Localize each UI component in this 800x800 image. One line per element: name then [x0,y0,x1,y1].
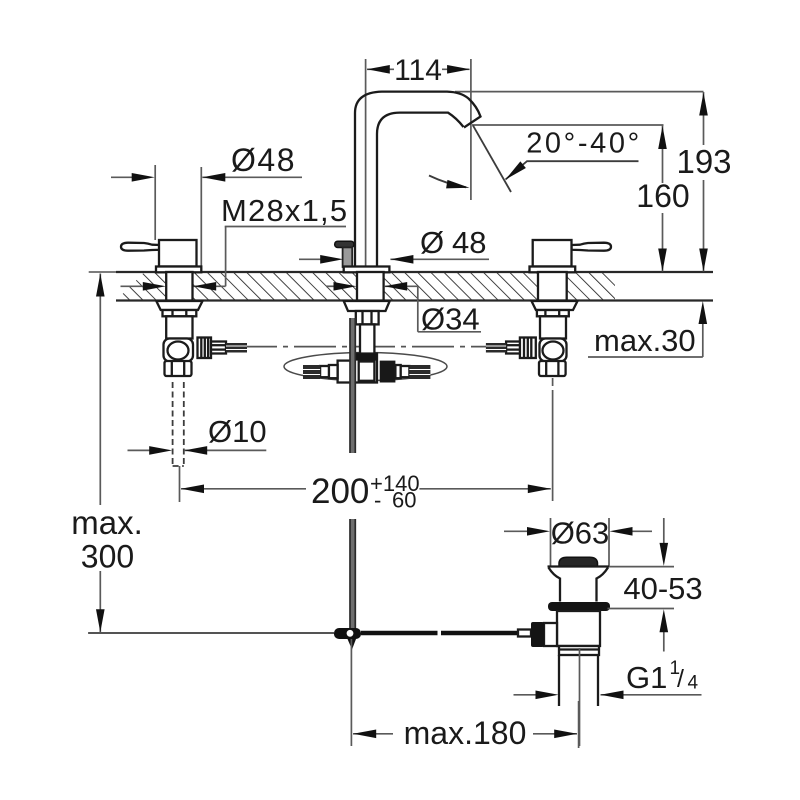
spout inner profile [377,113,464,267]
200 left arrowhead [181,485,204,494]
center Ø48 left arrowhead [320,255,343,264]
right valve hex nut [537,310,569,316]
max.180 dimension line left [353,733,393,735]
Ø63 left arrow body [504,530,528,532]
countertop hatched section between left valve and spout [193,272,357,301]
svg-text:20°-40°: 20°-40° [526,128,642,160]
svg-text:160: 160 [636,178,689,214]
right valve shank through deck [538,272,567,301]
svg-text:200: 200 [311,472,369,511]
left valve elbow body [164,339,194,362]
drain flange top line [548,565,610,567]
pull rod stem [343,247,353,267]
left valve hose knurled end [226,343,247,353]
max.180 left arrowhead [353,730,376,739]
dimension 114 right extension line [470,59,472,200]
Ø10 left arrowhead [149,446,172,455]
svg-text:193: 193 [676,143,731,180]
tee right hose knurled end [409,365,430,379]
40-53 lower vertical line [663,631,665,652]
svg-text:M28x1,5: M28x1,5 [221,193,348,228]
dimension 193 top arrowhead [699,93,708,116]
left valve elbow inner circle [168,342,189,360]
dimension 114 line left part [367,68,394,70]
max.300 dimension vertical line upper part [99,274,101,506]
left valve Ø48 extension line left [154,165,156,240]
angle leader arrowhead [503,161,526,182]
drain body [557,611,600,646]
max.30 up arrowhead [699,301,708,324]
center tee top dark band [354,354,377,361]
drain collar [559,646,599,655]
svg-text:max.: max. [71,504,143,541]
40-53 down arrowhead [660,543,669,566]
200 dimension left extension line [179,466,181,502]
pop-up rod clamp joint [334,628,361,639]
dimension 114 left extension line (passes down through spout column) [365,59,367,267]
svg-text:max.30: max.30 [594,323,696,358]
countertop bottom surface line [116,299,713,301]
max.180 right arrowhead [554,730,577,739]
right valve elbow inner circle [543,342,564,360]
M28 dimension body line left [121,285,144,287]
dimension 193 bottom arrowhead [699,249,708,272]
Ø10 dimension left arrow body [128,449,151,451]
reference line from spout top to 193 dimension [455,91,704,93]
Ø34 right arrowhead [384,282,407,291]
Ø10 right arrowhead [184,446,207,455]
center hex nut [356,311,379,324]
center shank mounting flange nut [344,301,390,311]
right valve escutcheon [530,267,576,273]
svg-text:Ø: Ø [420,225,444,260]
right valve elbow body [540,339,567,362]
G1 1/4 dimension left arrow body [514,694,537,696]
reference line from spout outlet to 160 dimension [472,124,664,126]
dimension 114 left arrowhead [367,65,390,74]
left Ø48 left arrowhead [132,173,155,182]
center shank tube below deck [360,324,374,353]
svg-text:-: - [374,488,381,513]
bottom reference line [88,632,334,634]
dimension 114 right arrowhead [447,65,470,74]
svg-text:/: / [677,665,684,693]
G1 1/4 left arrowhead [536,691,559,700]
left valve escutcheon [156,267,201,273]
G1 1/4 right arrowhead [601,691,624,700]
dimension 160 vertical line lower part [662,213,664,272]
drain rubber seal [548,602,610,611]
Ø63 right arrowhead [610,527,633,536]
countertop hatched section left of left valve [116,272,166,301]
left valve lower nut [165,361,192,376]
left valve mounting flange nut [156,301,202,310]
drain flange right side [597,568,609,602]
tee right compression nut [380,361,396,383]
svg-text:114: 114 [394,54,442,87]
center shank through deck [357,272,384,301]
svg-text:Ø48: Ø48 [231,142,296,178]
svg-text:60: 60 [392,488,416,513]
max.30 underline [588,356,703,358]
40-53 bottom reference line [608,608,675,610]
tee left ring [329,365,338,378]
left Ø48 dimension arrow line left [111,176,132,178]
Ø63 left extension line [550,518,552,566]
countertop hatched section between spout and right valve [384,272,538,301]
M28x1,5 leader vertical line [225,227,227,287]
swivel arc arrow under spout [429,176,466,188]
svg-text:max.180: max.180 [404,715,527,751]
left handle lever [121,243,161,251]
center tee fitting block [354,354,377,383]
200 dimension line right segment [419,488,550,490]
right valve outlet adapter [506,342,520,354]
swivel arc arrowhead [446,180,470,192]
drain side port [544,623,557,646]
right valve body tube [540,316,566,338]
svg-text:300: 300 [81,539,134,575]
M28 left arrowhead [143,282,166,291]
right valve hose knurled end [486,343,506,353]
max.300 up arrowhead [96,274,105,297]
Ø34 dimension left arrow body [326,285,335,287]
clamp lower tail [348,639,357,650]
M28x1,5 underline [225,226,346,228]
drain tailpipe left wall [558,655,560,706]
max.300 down arrowhead [96,609,105,632]
Ø34 leader vertical line [417,286,419,332]
40-53 up arrowhead [660,609,669,632]
max.180 dimension line right [533,733,577,735]
svg-text:G1: G1 [626,660,667,695]
thin extension below clamp (max.180 left extension) [350,639,352,746]
Ø63 right extension line [608,518,610,566]
left valve outlet compression nut [198,338,212,359]
max.30 vertical line [702,322,704,357]
angle label leader line [506,161,639,179]
left valve body tube [166,316,192,338]
Ø63 left arrowhead [527,527,550,536]
tee left compression nut [338,361,353,383]
linkage to drain lever rod outline [518,630,531,637]
pop-up rod (thick, down the middle) [350,318,356,453]
40-53 top reference line [609,566,674,568]
40-53 upper vertical line [663,518,665,544]
tee left hose knurled end [303,365,320,379]
Ø10 right arrow body (underline) [184,449,266,451]
center Ø48 dimension right arrow body (leader under text) [390,258,489,260]
right valve mounting flange nut [532,301,578,310]
M28 dimension body line right [194,285,226,287]
tee right ring [395,365,400,378]
left valve Ø48 extension line right [200,167,202,266]
right valve lower nut [539,361,566,376]
svg-text:Ø34: Ø34 [421,302,480,337]
countertop top surface line [89,271,116,273]
center Ø48 dimension left arrow body [299,258,321,260]
svg-text:Ø10: Ø10 [208,414,267,449]
left valve shank through deck [166,272,192,301]
M28 right arrowhead [193,282,216,291]
center escutcheon [344,267,390,273]
drain centerline [579,648,581,746]
svg-text:40-53: 40-53 [623,571,702,606]
left Ø48 right arrowhead [202,173,225,182]
right valve centerline extension (200 dim right extension) [552,378,554,386]
linkage rod segment 2 [441,631,520,636]
max.180 right extension line [578,701,580,748]
dimension 160 bottom arrowhead [658,249,667,272]
right valve outlet compression nut [520,338,536,359]
svg-text:48: 48 [452,225,486,260]
drain tailpipe right wall [597,655,599,706]
drain flange left side [549,568,561,602]
right handle body [533,240,572,267]
pull rod knob above deck [335,241,354,247]
left valve hex nut [163,310,197,316]
dimension 160 top arrowhead [658,126,667,149]
linkage rod segment 1 [361,631,438,636]
200 right arrowhead [528,485,551,494]
max.300 dimension vertical line lower part [99,571,101,632]
tee right ring 2 [401,366,410,377]
countertop hatched section right of right valve [567,272,615,301]
Ø34 left arrowhead [334,282,357,291]
dash-dot hose centerline between valves [247,346,513,348]
Ø34 right arrow body [384,285,418,287]
washbasin outline ellipse [284,353,447,381]
left Ø48 dimension arrow line right (leader under text) [202,176,302,178]
dimension 160 vertical line upper part [662,126,664,184]
drain ball lever knob [531,622,544,647]
left handle body [159,240,197,267]
center Ø48 right arrowhead [390,255,413,264]
Ø10 dashed connection pipe below left valve [172,382,174,466]
tee left ring 2 [320,366,329,377]
dimension 193 vertical line upper part [703,92,705,145]
left valve outlet adapter [211,342,226,354]
svg-text:Ø63: Ø63 [551,516,610,551]
Ø34 underline [418,331,481,333]
200 dimension line left segment [181,488,306,490]
dimension 114 line right part [442,68,470,70]
svg-text:4: 4 [688,673,699,694]
drain plug cap [559,557,598,566]
angle reference line from spout outlet [473,126,511,193]
left valve hex nut facet lines [171,310,173,316]
spout outer profile [355,92,481,267]
Ø63 right arrow body [632,530,652,532]
center tee inner rect [359,362,375,381]
dimension 193 vertical line lower part [703,180,705,272]
G1 1/4 right arrow body (underline) [601,694,702,696]
right handle lever [572,243,612,251]
